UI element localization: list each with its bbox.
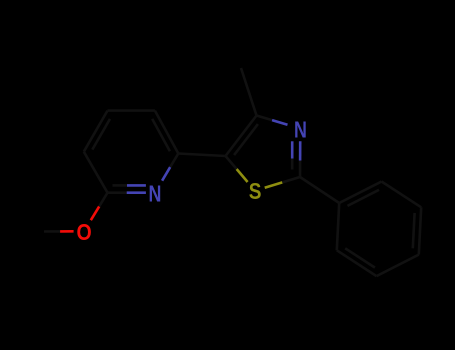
bond C2t-C1b (300, 177, 339, 203)
bond C4p=C5p main (84, 111, 108, 152)
bond C5b-C6b (382, 182, 422, 208)
bond C4b=C5b main (419, 207, 421, 254)
bond N3=C2t main dark half (299, 161, 302, 178)
bond N3=C2t inner dark half (291, 159, 294, 170)
bond C6b=C1b main (339, 182, 381, 204)
bond N1-C2p blue half (162, 167, 170, 181)
bond C6=N1 main dark half (108, 191, 127, 194)
bond S-C5t dark half (226, 156, 237, 169)
bond C4b=C5b inner (413, 213, 415, 248)
bond C2p=C3p inner (152, 119, 170, 151)
bond C4t-N3 dark half (257, 116, 273, 121)
bond C3p-C4p (108, 109, 155, 112)
bond CH3a-O dark half (44, 230, 60, 233)
bond C4p=C5p inner (92, 119, 110, 150)
svg-text:N: N (148, 180, 161, 206)
bond C3b-C4b (377, 255, 419, 277)
bond C6=N1 main blue half (127, 191, 146, 194)
bond C2p=C3p main (155, 111, 178, 154)
bond N3=C2t inner blue half (291, 141, 294, 158)
svg-text:O: O (77, 219, 92, 245)
bond C2b=C3b inner (345, 248, 375, 267)
bond C5t=C4t main (226, 116, 257, 157)
bond S-C2t olive half (265, 182, 283, 187)
bond S-C2t dark half (282, 177, 300, 182)
bond CH3a-O red half (60, 230, 74, 233)
bond C5p-C6 (84, 152, 108, 193)
bond O-C6 (dark half) (99, 193, 107, 207)
bond C1b-C2b (337, 203, 339, 250)
bond C4t-CH3b methyl (241, 68, 257, 116)
bond O-C6 (colored half) (91, 206, 99, 220)
bond C6=N1 inner dark half (113, 184, 128, 187)
svg-text:N: N (294, 116, 307, 142)
bond N1-C2p dark half (170, 154, 178, 168)
bond C6b=C1b inner (348, 190, 380, 206)
bond C4t-N3 blue half (272, 120, 288, 125)
bond N3=C2t main blue half (299, 141, 302, 160)
svg-text:S: S (249, 178, 262, 204)
bond C5t=C4t inner (234, 124, 258, 155)
bond C2b=C3b main (337, 250, 377, 276)
bond C2p-C5t (178, 154, 225, 157)
bond C6=N1 inner blue half (127, 184, 146, 187)
bond S-C5t olive half (237, 169, 248, 182)
